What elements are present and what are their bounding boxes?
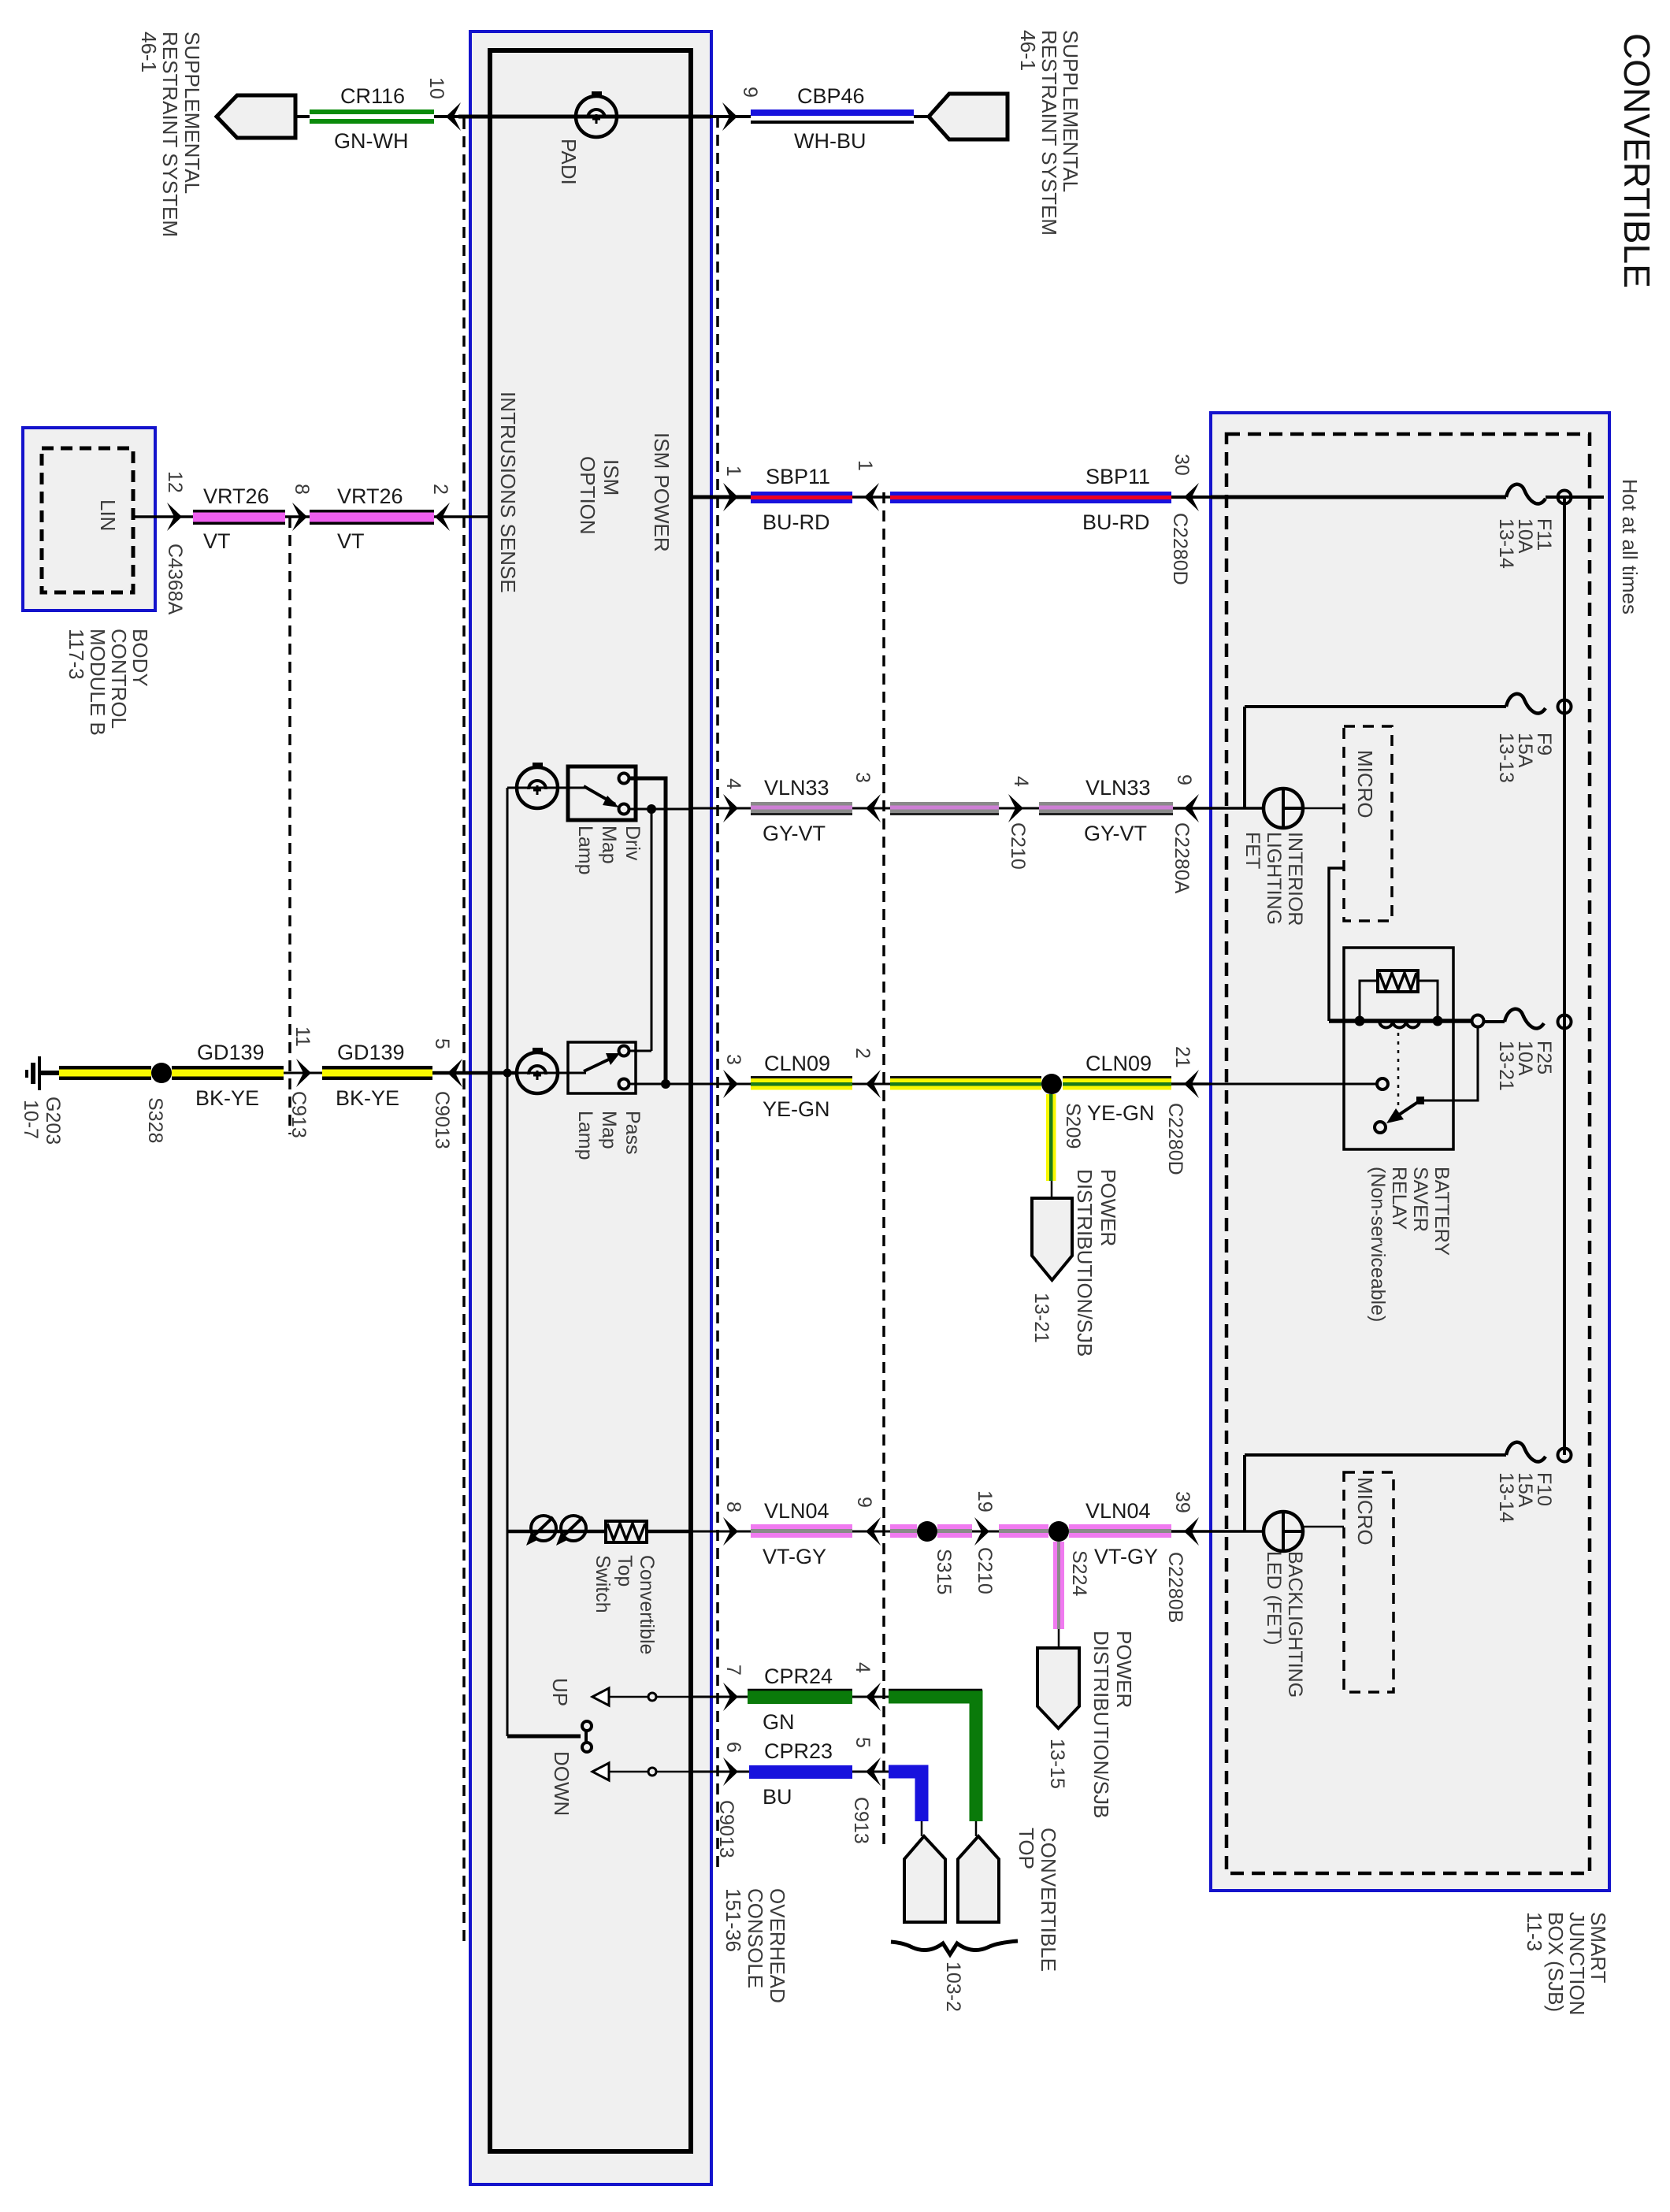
svg-text:POWER: POWER: [1112, 1631, 1136, 1708]
wire CPR23 BU band: [749, 1765, 852, 1779]
off-page connector convertible top (blue): [904, 1836, 945, 1922]
wire GD139 BK-YE band 3: [322, 1066, 432, 1070]
wire CR116 (row A left): [295, 115, 458, 118]
svg-text:C9013: C9013: [715, 1800, 737, 1858]
svg-text:5: 5: [852, 1737, 874, 1748]
wire lamp to switch pivot: [517, 1072, 586, 1074]
svg-text:C9013: C9013: [431, 1091, 453, 1149]
wire driv top contact to down-rail: [629, 778, 666, 1084]
svg-text:YE-GN: YE-GN: [1087, 1101, 1155, 1125]
svg-text:4: 4: [722, 778, 744, 789]
wire CR116 GN-WH colored band: [310, 109, 434, 114]
resistor convertible top switch: [606, 1521, 647, 1542]
svg-text:RESTRAINT SYSTEM: RESTRAINT SYSTEM: [158, 32, 182, 237]
wire VLN04 VT-GY band 4: [999, 1524, 1048, 1529]
wire CLN09 YE-GN band 1: [751, 1076, 852, 1078]
arrowhead at pin 10: [446, 102, 461, 131]
terminal ring F11: [1558, 491, 1572, 504]
contact bottom driv: [619, 804, 629, 815]
interior lighting FET drop: [1243, 707, 1246, 808]
svg-text:GY-VT: GY-VT: [763, 822, 826, 845]
svg-text:BU-RD: BU-RD: [763, 510, 830, 534]
svg-text:1: 1: [722, 466, 744, 477]
svg-text:VLN04: VLN04: [764, 1499, 829, 1523]
splice S315: [917, 1521, 937, 1542]
svg-text:RESTRAINT SYSTEM: RESTRAINT SYSTEM: [1037, 30, 1061, 236]
svg-text:FET: FET: [1241, 832, 1264, 869]
arrowhead at pin 8 (console): [723, 1517, 738, 1546]
label convertible top switch: [592, 1555, 658, 1654]
switch arm driv: [584, 786, 615, 804]
battery saver relay box: [1344, 948, 1453, 1149]
svg-text:C210: C210: [974, 1547, 996, 1594]
svg-text:RELAY: RELAY: [1388, 1167, 1410, 1230]
SJB bus line: [1563, 497, 1566, 1455]
svg-text:39: 39: [1171, 1491, 1193, 1513]
svg-text:BACKLIGHTING: BACKLIGHTING: [1284, 1551, 1306, 1698]
label supplemental restraint system 46-1 (right): [1016, 30, 1082, 236]
svg-text:VT-GY: VT-GY: [763, 1545, 826, 1568]
svg-text:BU-RD: BU-RD: [1082, 510, 1150, 534]
MICRO box (interior lighting): [1344, 726, 1392, 921]
svg-text:13-21: 13-21: [1030, 1293, 1052, 1343]
wire CBP46 WH-BU colored band: [751, 109, 914, 116]
svg-text:SMART: SMART: [1586, 1912, 1610, 1984]
arrowhead at C913 pin 3: [852, 807, 890, 810]
relay stationary contact: [1377, 1078, 1388, 1089]
svg-text:GY-VT: GY-VT: [1084, 822, 1147, 845]
left rail junction: [503, 1069, 512, 1078]
SJB: F11 feed wire: [1211, 495, 1506, 499]
wire row H CPR23: [691, 1771, 749, 1773]
label driv map lamp: [574, 826, 644, 875]
splice S224: [1048, 1521, 1069, 1542]
svg-text:INTRUSIONS SENSE: INTRUSIONS SENSE: [496, 392, 520, 593]
wire row B VRT26: [133, 515, 193, 518]
wire VLN33 GY-VT band 2: [890, 802, 999, 806]
CLN09 into relay: [1211, 1083, 1376, 1086]
svg-text:CLN09: CLN09: [764, 1052, 830, 1075]
off-page connector to SRS (right pentagon): [929, 94, 1008, 139]
svg-text:13-13: 13-13: [1495, 733, 1517, 783]
svg-text:BODY: BODY: [128, 629, 152, 687]
arrowhead at C913 pin 9: [852, 1531, 890, 1533]
backlighting LED (FET) symbol: [1264, 1512, 1303, 1551]
switch arm pass: [584, 1056, 615, 1071]
wire VLN04 VT-GY band 1: [751, 1524, 852, 1529]
svg-text:SUPPLEMENTAL: SUPPLEMENTAL: [180, 32, 204, 194]
svg-text:Map: Map: [598, 826, 620, 864]
svg-text:SAVER: SAVER: [1409, 1167, 1431, 1232]
junction dots: [1355, 1016, 1365, 1026]
SJB: F10 feed wire: [1245, 1453, 1506, 1457]
label convertible top: [1015, 1828, 1060, 1972]
svg-text:9: 9: [853, 1497, 875, 1508]
svg-text:LIN: LIN: [96, 499, 120, 531]
svg-text:VT: VT: [203, 529, 231, 553]
svg-text:MODULE B: MODULE B: [86, 629, 109, 736]
svg-text:13-15: 13-15: [1046, 1739, 1068, 1789]
grommet 103-2: [891, 1941, 1018, 1954]
relay coil line: [1329, 1019, 1472, 1023]
relay resistor leads: [1360, 981, 1378, 1021]
connector C913 dashed line (left): [288, 517, 291, 1134]
arrowhead at pin 9 (SJB): [1173, 807, 1263, 810]
svg-text:4: 4: [1010, 776, 1032, 787]
wire CLN09 YE-GN band 2: [890, 1076, 1041, 1078]
lamp passenger map: [517, 1052, 558, 1093]
svg-text:DOWN: DOWN: [550, 1751, 573, 1816]
svg-text:BK-YE: BK-YE: [195, 1086, 259, 1110]
arrowhead at C210 pin 19: [972, 1531, 999, 1533]
indicator lamp 2: [561, 1516, 586, 1541]
svg-text:BOX (SJB): BOX (SJB): [1544, 1912, 1568, 2012]
fuse F25: [1505, 1009, 1544, 1029]
backlighting LED drop: [1243, 1455, 1246, 1531]
wire GD139 BK-YE band 2: [172, 1066, 284, 1070]
svg-text:CONSOLE: CONSOLE: [744, 1888, 767, 1988]
arrowhead at C913 pin 5: [852, 1771, 889, 1773]
terminal ring F25: [1558, 1015, 1572, 1029]
svg-text:5: 5: [431, 1038, 453, 1049]
svg-text:POWER: POWER: [1097, 1169, 1120, 1246]
svg-text:Lamp: Lamp: [574, 1111, 596, 1160]
relay actuation dotted line: [1397, 1033, 1400, 1108]
svg-text:OVERHEAD: OVERHEAD: [766, 1888, 789, 2003]
left rail inside console: [507, 788, 509, 1736]
svg-text:8: 8: [722, 1501, 744, 1512]
svg-text:6: 6: [722, 1742, 744, 1753]
wire VLN04 VT-GY band 2: [890, 1524, 917, 1529]
svg-text:DISTRIBUTION/SJB: DISTRIBUTION/SJB: [1089, 1631, 1113, 1818]
wire VRT26 VT band 1: [193, 510, 285, 513]
svg-text:Convertible: Convertible: [636, 1555, 658, 1654]
svg-text:CONTROL: CONTROL: [107, 629, 131, 729]
svg-text:Hot at all times: Hot at all times: [1618, 479, 1642, 614]
svg-text:SBP11: SBP11: [766, 465, 830, 488]
smart junction box inner dashed rect: [1227, 434, 1590, 1873]
svg-text:Map: Map: [598, 1111, 620, 1149]
fuse F11: [1506, 484, 1546, 504]
arrowhead at pin 2: [434, 515, 490, 518]
svg-text:S209: S209: [1062, 1103, 1084, 1149]
svg-text:10: 10: [425, 77, 447, 99]
label overhead console 151-36: [722, 1888, 789, 2003]
junction node: [647, 804, 656, 814]
arrowhead at pin 3 (console): [723, 1070, 738, 1098]
svg-text:4: 4: [852, 1662, 874, 1673]
wire row C SBP11 stub from case: [691, 495, 751, 499]
svg-text:21: 21: [1171, 1046, 1193, 1068]
off-page connector to SRS (left pentagon): [217, 95, 295, 138]
svg-text:9: 9: [1173, 774, 1195, 785]
svg-text:(Non-serviceable): (Non-serviceable): [1367, 1167, 1389, 1322]
smart junction box (blue): [1211, 413, 1609, 1891]
splice S209: [1041, 1074, 1062, 1094]
svg-text:46-1: 46-1: [137, 32, 161, 72]
ground G203: [38, 1056, 41, 1090]
svg-text:C4368A: C4368A: [164, 544, 186, 615]
arrowhead at pin 1 (console): [723, 483, 738, 511]
svg-text:8: 8: [291, 484, 313, 495]
svg-text:GD139: GD139: [197, 1041, 265, 1064]
svg-text:C210: C210: [1007, 822, 1029, 870]
svg-text:GN-WH: GN-WH: [334, 129, 408, 153]
terminal ring F9: [1558, 700, 1572, 714]
svg-text:Pass: Pass: [622, 1111, 644, 1155]
svg-text:11-3: 11-3: [1523, 1912, 1546, 1951]
svg-text:CPR23: CPR23: [764, 1739, 833, 1763]
svg-text:VT: VT: [337, 529, 365, 553]
fuse F10: [1506, 1442, 1546, 1462]
svg-text:VLN33: VLN33: [764, 776, 829, 800]
splice drop S224 VT-GY: [1053, 1542, 1057, 1629]
SJB: F9 feed wire: [1245, 705, 1506, 708]
arrowhead at pin 9: [722, 102, 737, 131]
svg-text:BATTERY: BATTERY: [1431, 1167, 1453, 1256]
svg-text:PADI: PADI: [557, 139, 581, 185]
svg-text:CONVERTIBLE: CONVERTIBLE: [1616, 33, 1657, 288]
up contact row: [592, 1688, 609, 1705]
wire CLN09 YE-GN band 3: [1063, 1076, 1171, 1078]
relay coil bumps: [1379, 1021, 1419, 1028]
wire node to pass top contact: [651, 809, 653, 1051]
svg-text:13-14: 13-14: [1495, 518, 1517, 569]
svg-text:7: 7: [722, 1665, 744, 1676]
svg-text:SUPPLEMENTAL: SUPPLEMENTAL: [1059, 30, 1082, 192]
svg-text:S328: S328: [144, 1097, 166, 1143]
splice S328: [151, 1063, 172, 1083]
svg-text:2: 2: [852, 1048, 874, 1059]
wire SBP11 BU-RD band 1: [751, 492, 852, 495]
label body control module B 117-3: [65, 629, 152, 736]
svg-text:11: 11: [291, 1026, 314, 1047]
svg-text:C2280B: C2280B: [1164, 1552, 1186, 1623]
wire VLN33 GY-VT band 1: [751, 802, 852, 806]
svg-text:G203: G203: [42, 1097, 64, 1145]
label supplemental restraint system 46-1 (left): [137, 32, 204, 237]
wire CPR23 BU bend to connector: [889, 1772, 922, 1821]
arrowhead at pin 8: [285, 515, 310, 518]
down contact row: [592, 1763, 609, 1780]
svg-text:CONVERTIBLE: CONVERTIBLE: [1037, 1828, 1060, 1972]
svg-text:INTERIOR: INTERIOR: [1284, 832, 1306, 926]
svg-text:YE-GN: YE-GN: [763, 1097, 830, 1121]
connector C9013 dashed line (right of console): [716, 117, 719, 1867]
arrowhead at C210 pin 4: [999, 807, 1039, 810]
contact top pass: [619, 1046, 629, 1056]
svg-text:30: 30: [1171, 454, 1193, 476]
svg-text:CBP46: CBP46: [797, 84, 865, 108]
svg-text:ISM: ISM: [599, 459, 623, 495]
svg-text:CR116: CR116: [340, 84, 405, 108]
label pass map lamp: [574, 1111, 644, 1160]
arrowhead at pin 30 (SJB): [1171, 495, 1211, 499]
svg-text:MICRO: MICRO: [1353, 1477, 1377, 1546]
switch pivot contacts: [507, 1735, 581, 1739]
svg-text:GD139: GD139: [337, 1041, 405, 1064]
arrowhead at C913 pin 2: [852, 1083, 890, 1086]
svg-text:10-7: 10-7: [20, 1100, 42, 1139]
svg-text:VRT26: VRT26: [337, 484, 403, 508]
micro to relay wire: [1329, 868, 1344, 1021]
label ISM option: [576, 456, 623, 535]
svg-text:2: 2: [429, 484, 451, 495]
svg-text:13-21: 13-21: [1495, 1041, 1517, 1091]
wire lamp to switch pivot: [558, 787, 586, 789]
relay arm: [1375, 1122, 1386, 1133]
arrowhead at pin 12: [167, 503, 182, 531]
svg-text:C2280D: C2280D: [1169, 513, 1191, 585]
off-page connector convertible top (green): [958, 1836, 999, 1922]
svg-text:103-2: 103-2: [942, 1961, 964, 2012]
svg-text:S224: S224: [1068, 1550, 1090, 1596]
svg-text:C913: C913: [288, 1091, 310, 1138]
svg-text:TOP: TOP: [1015, 1828, 1038, 1869]
svg-text:S315: S315: [933, 1549, 955, 1594]
svg-text:CLN09: CLN09: [1085, 1052, 1152, 1075]
wire lamp left to rail: [507, 787, 558, 789]
svg-text:C913: C913: [850, 1797, 872, 1844]
arrowhead at pin 21 (SJB): [1171, 1082, 1211, 1086]
wire pass top contact to node rail: [629, 1050, 651, 1052]
svg-text:C2280D: C2280D: [1164, 1103, 1186, 1175]
arrowhead at C913 pin 1: [852, 495, 890, 499]
junction node: [661, 1079, 670, 1089]
wire row E CLN09 console stub: [691, 1083, 751, 1086]
connector C9013 dashed line (left of console): [462, 118, 466, 1946]
body control module LIN box (blue): [23, 428, 155, 611]
svg-text:LIGHTING: LIGHTING: [1263, 832, 1285, 925]
wire CBP46 (row A right): [711, 115, 751, 118]
wire GD139 BK-YE band 1: [59, 1066, 151, 1070]
svg-text:13-14: 13-14: [1495, 1472, 1517, 1523]
wire SBP11 BU-RD band 2: [890, 492, 1171, 495]
wire CPR24 GN bend to connector: [889, 1697, 976, 1821]
arrowhead at pin 5 (console): [432, 1071, 517, 1075]
arrowhead at pin 4 (console): [723, 794, 738, 822]
contact top driv: [619, 774, 629, 784]
wire row D VLN33 console stub: [691, 807, 751, 810]
svg-text:1: 1: [854, 460, 876, 471]
lamp driver map: [517, 767, 558, 808]
wire VLN04 VT-GY band 5: [1069, 1524, 1171, 1529]
wire VLN04 VT-GY band 3: [937, 1524, 972, 1529]
arrowhead at pin 39 (SJB): [1171, 1530, 1263, 1533]
MICRO box (backlighting): [1344, 1472, 1394, 1692]
relay resistor: [1378, 971, 1418, 992]
svg-text:LED (FET): LED (FET): [1263, 1551, 1285, 1645]
overhead console inner case rect: [490, 50, 691, 2151]
svg-text:19: 19: [974, 1490, 996, 1512]
svg-text:Lamp: Lamp: [574, 826, 596, 875]
svg-text:VLN33: VLN33: [1085, 776, 1151, 800]
svg-text:VRT26: VRT26: [203, 484, 269, 508]
svg-text:UP: UP: [548, 1678, 572, 1706]
svg-text:3: 3: [852, 772, 874, 783]
LIN inner dashed rect: [42, 448, 133, 592]
fuse F9: [1506, 694, 1546, 714]
svg-text:VT-GY: VT-GY: [1094, 1545, 1158, 1568]
wire row A through console: [458, 115, 711, 119]
label smart junction box: [1523, 1912, 1610, 2015]
convertible top switch row: [507, 1530, 691, 1534]
overhead console component box (blue): [470, 32, 711, 2184]
switch case driv map lamp: [568, 766, 636, 820]
indicator lamp 1: [531, 1516, 556, 1541]
wire row G CPR24: [691, 1696, 748, 1698]
svg-text:Top: Top: [614, 1555, 636, 1587]
svg-text:DISTRIBUTION/SJB: DISTRIBUTION/SJB: [1073, 1169, 1097, 1357]
wire driv bottom contact out (VLN33): [629, 808, 691, 811]
wire VRT26 VT band 2: [310, 510, 434, 513]
svg-text:OPTION: OPTION: [576, 456, 599, 535]
terminal ring F10: [1558, 1449, 1572, 1462]
interior lighting FET symbol: [1264, 789, 1303, 828]
svg-text:BU: BU: [763, 1785, 792, 1809]
wire pass bottom contact out (CLN09): [629, 1083, 691, 1086]
off-page connector power distribution 13-15: [1037, 1648, 1079, 1728]
svg-text:Driv: Driv: [622, 826, 644, 861]
splice drop S209 YE-GN: [1046, 1094, 1049, 1181]
svg-text:GN: GN: [763, 1710, 795, 1734]
contact bottom pass: [619, 1079, 629, 1089]
svg-text:46-1: 46-1: [1016, 30, 1040, 71]
off-page connector power distribution 13-21: [1032, 1198, 1072, 1280]
svg-text:Switch: Switch: [592, 1555, 614, 1613]
svg-text:3: 3: [722, 1054, 744, 1065]
svg-text:ISM POWER: ISM POWER: [650, 432, 674, 552]
svg-text:12: 12: [164, 471, 186, 493]
svg-text:C2280A: C2280A: [1171, 822, 1193, 894]
label battery saver relay: [1367, 1167, 1453, 1322]
wire VLN33 GY-VT band 3: [1039, 802, 1173, 806]
svg-text:9: 9: [739, 87, 761, 98]
connector C913 dashed line (right): [882, 492, 885, 1851]
svg-text:MICRO: MICRO: [1353, 750, 1377, 818]
switch case pass map lamp: [568, 1042, 636, 1093]
svg-text:151-36: 151-36: [722, 1888, 745, 1952]
lamp PADI: [576, 96, 617, 137]
svg-text:117-3: 117-3: [65, 629, 88, 680]
svg-text:JUNCTION: JUNCTION: [1565, 1912, 1589, 2015]
svg-text:CPR24: CPR24: [764, 1665, 833, 1688]
arrowhead at C913 pin 4: [852, 1696, 889, 1698]
svg-text:WH-BU: WH-BU: [794, 129, 866, 153]
wire CPR24 GN band: [748, 1691, 852, 1704]
svg-text:VLN04: VLN04: [1085, 1499, 1151, 1523]
svg-text:SBP11: SBP11: [1085, 465, 1150, 488]
svg-text:BK-YE: BK-YE: [336, 1086, 399, 1110]
relay output ring: [1472, 1015, 1484, 1027]
arrowhead at C913 pin 11: [284, 1072, 322, 1074]
